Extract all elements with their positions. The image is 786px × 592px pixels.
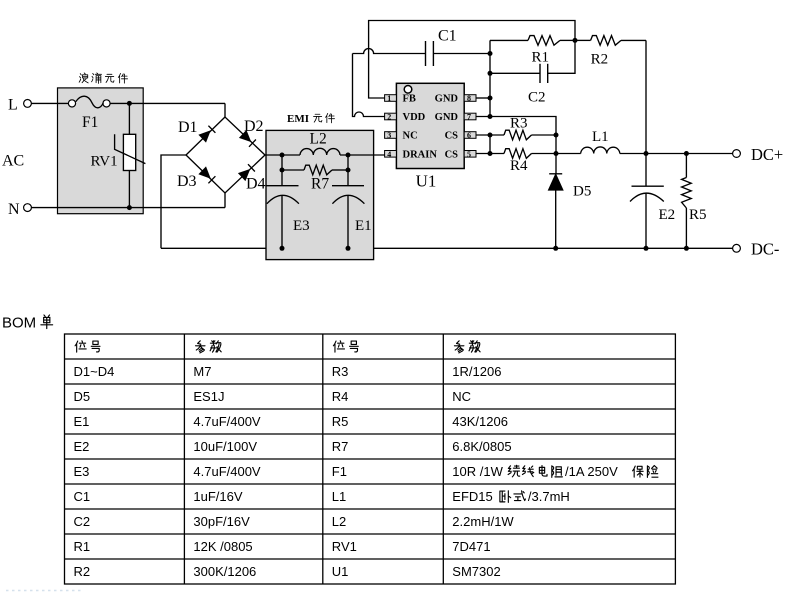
svg-text:D2: D2 <box>244 118 264 135</box>
svg-text:2.2mH/1W: 2.2mH/1W <box>452 514 514 529</box>
inductor L2 <box>300 131 340 156</box>
diode D3 <box>177 166 215 190</box>
fuse F1 <box>68 96 110 131</box>
svg-text:1uF/16V: 1uF/16V <box>193 489 242 504</box>
svg-text:E2: E2 <box>659 207 676 223</box>
wire L2 right node down <box>346 155 351 173</box>
wire bottom vertex riser <box>224 193 226 208</box>
svg-text:L2: L2 <box>332 514 346 529</box>
svg-text:R3: R3 <box>332 364 349 379</box>
svg-text:DRAIN: DRAIN <box>403 149 438 160</box>
diode D1 <box>178 119 215 143</box>
pin 2 VDD <box>385 112 426 123</box>
junction E1 bottom <box>346 246 351 251</box>
wire N to bridge <box>31 205 225 210</box>
diode D4 <box>238 164 266 192</box>
svg-text:CS: CS <box>445 131 459 142</box>
pin 4 DRAIN <box>385 149 438 160</box>
svg-text:CS: CS <box>445 149 459 160</box>
BOM table text <box>74 364 619 579</box>
wire R2 down to output <box>644 40 649 156</box>
BOM title <box>2 315 53 332</box>
wire bridge negative to bottom rail <box>161 155 186 248</box>
wire bottom rail DC- <box>161 247 733 249</box>
svg-text:6.8K/0805: 6.8K/0805 <box>452 439 511 454</box>
svg-text:M7: M7 <box>193 364 211 379</box>
diode D5 <box>549 174 592 249</box>
pin 6 CS <box>445 131 476 142</box>
svg-text:D5: D5 <box>573 184 591 200</box>
capacitor E2 <box>630 154 675 251</box>
resistor R1 <box>490 36 578 66</box>
svg-text:C2: C2 <box>528 90 546 106</box>
svg-text:6: 6 <box>467 131 471 140</box>
svg-text:E3: E3 <box>74 464 90 479</box>
svg-text:R7: R7 <box>311 176 329 193</box>
svg-text:N: N <box>8 201 20 218</box>
svg-text:D1: D1 <box>178 119 198 136</box>
pin 5 CS <box>445 149 476 160</box>
svg-text:AC: AC <box>2 153 24 170</box>
svg-text:DC-: DC- <box>751 240 779 259</box>
svg-text:L2: L2 <box>310 131 327 148</box>
terminal N <box>8 201 31 218</box>
svg-text:7D471: 7D471 <box>452 539 490 554</box>
wire fuse to bridge, node at RV1 <box>110 101 225 106</box>
wire FB pin1 to top rail <box>369 21 575 99</box>
svg-text:FB: FB <box>403 94 416 105</box>
capacitor C2 <box>490 40 575 105</box>
pin 1 FB <box>385 94 416 105</box>
terminal L <box>8 97 31 114</box>
svg-text:2: 2 <box>387 113 391 122</box>
svg-text:10R /1W: 10R /1W <box>452 464 503 479</box>
svg-text:RV1: RV1 <box>332 539 357 554</box>
svg-text:E3: E3 <box>293 218 310 234</box>
svg-text:DC+: DC+ <box>751 145 783 164</box>
svg-text:R3: R3 <box>510 116 528 132</box>
svg-text:1: 1 <box>387 94 391 103</box>
svg-text:3: 3 <box>387 131 391 140</box>
svg-text:SM7302: SM7302 <box>452 564 500 579</box>
svg-text:R7: R7 <box>332 439 349 454</box>
varistor RV1 <box>91 103 146 207</box>
svg-text:F1: F1 <box>82 114 98 131</box>
svg-text:EFD15: EFD15 <box>452 489 492 504</box>
svg-text:BOM: BOM <box>2 315 36 332</box>
wire L2 to DRAIN pin 4 <box>340 153 385 158</box>
bridge diamond wires <box>186 117 265 193</box>
resistor R4 <box>476 149 556 174</box>
svg-text:/3.7mH: /3.7mH <box>528 489 570 504</box>
svg-text:1R/1206: 1R/1206 <box>452 364 501 379</box>
svg-text:D5: D5 <box>74 389 91 404</box>
svg-text:NC: NC <box>452 389 471 404</box>
svg-text:D4: D4 <box>246 176 266 193</box>
resistor R2 <box>575 36 646 68</box>
inductor L1 <box>556 129 733 154</box>
svg-text:L1: L1 <box>332 489 346 504</box>
svg-text:U1: U1 <box>332 564 349 579</box>
svg-text:300K/1206: 300K/1206 <box>193 564 256 579</box>
svg-text:U1: U1 <box>416 172 437 191</box>
resistor R5 <box>682 151 707 251</box>
wire CS pins tie <box>488 133 493 157</box>
terminal DC- <box>733 240 780 259</box>
svg-text:7: 7 <box>467 113 471 122</box>
svg-text:R1: R1 <box>74 539 91 554</box>
svg-text:L: L <box>8 97 18 114</box>
pin 3 NC <box>385 131 418 142</box>
EMI filter block EMI 元件 <box>266 113 374 260</box>
svg-text:4.7uF/400V: 4.7uF/400V <box>193 464 261 479</box>
svg-text:D1~D4: D1~D4 <box>74 364 115 379</box>
surge protection block 浪涌元件 <box>58 73 144 214</box>
svg-text:RV1: RV1 <box>91 154 118 170</box>
svg-text:E2: E2 <box>74 439 90 454</box>
BOM table grid <box>65 334 676 584</box>
svg-text:E1: E1 <box>74 414 90 429</box>
svg-text:C2: C2 <box>74 514 91 529</box>
svg-text:C1: C1 <box>438 28 457 45</box>
wire VDD pin2 with hop <box>353 54 385 117</box>
svg-text:R4: R4 <box>332 389 349 404</box>
svg-text:GND: GND <box>435 94 459 105</box>
svg-text:GND: GND <box>435 112 459 123</box>
decorative faint mark <box>6 590 82 592</box>
op-amp U1 SM7302 body <box>396 83 464 190</box>
svg-text:5: 5 <box>467 150 471 159</box>
pin 8 GND <box>435 94 476 105</box>
junction D5 anode <box>553 246 558 251</box>
svg-text:F1: F1 <box>332 464 347 479</box>
wire L to fuse <box>31 102 69 104</box>
node GND vertical <box>488 40 493 119</box>
wire GND pin8 <box>476 97 490 99</box>
svg-text:D3: D3 <box>177 173 197 190</box>
svg-text:R5: R5 <box>332 414 349 429</box>
capacitor E3 <box>267 170 310 248</box>
resistor R3 <box>476 116 556 140</box>
svg-text:E1: E1 <box>355 218 372 234</box>
svg-text:R2: R2 <box>591 52 609 68</box>
net label AC <box>2 153 24 170</box>
svg-text:R2: R2 <box>74 564 91 579</box>
wire L2 left node down <box>280 155 285 173</box>
capacitor C1 <box>353 28 491 67</box>
svg-text:VDD: VDD <box>403 112 426 123</box>
svg-text:R5: R5 <box>689 207 707 223</box>
svg-text:4.7uF/400V: 4.7uF/400V <box>193 414 261 429</box>
svg-text:NC: NC <box>403 131 418 142</box>
svg-text:R4: R4 <box>510 158 528 174</box>
wire bridge to L2 node <box>265 153 300 158</box>
svg-text:L1: L1 <box>592 129 609 145</box>
svg-text:12K /0805: 12K /0805 <box>193 539 252 554</box>
junction E3 bottom <box>280 246 285 251</box>
svg-text:10uF/100V: 10uF/100V <box>193 439 257 454</box>
svg-text:ES1J: ES1J <box>193 389 224 404</box>
resistor R7 <box>282 165 348 192</box>
capacitor E1 <box>332 170 372 248</box>
svg-text:R1: R1 <box>532 50 550 66</box>
svg-text:43K/1206: 43K/1206 <box>452 414 508 429</box>
svg-text:EMI: EMI <box>287 113 309 125</box>
svg-text:8: 8 <box>467 94 471 103</box>
pin 7 GND <box>435 112 476 123</box>
wire top vertex riser <box>224 103 226 117</box>
terminal DC+ <box>733 145 784 164</box>
svg-text:C1: C1 <box>74 489 91 504</box>
svg-text:4: 4 <box>387 150 391 159</box>
svg-text:/1A 250V: /1A 250V <box>565 464 618 479</box>
diode D2 <box>239 118 264 147</box>
wire GND pin7 to D5 branch <box>476 117 559 174</box>
svg-text:30pF/16V: 30pF/16V <box>193 514 250 529</box>
